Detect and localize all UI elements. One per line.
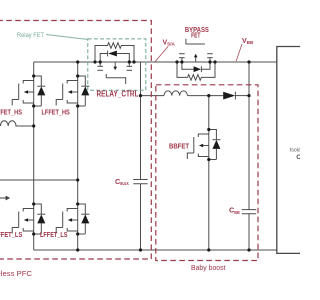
capacitor C_BB <box>242 210 256 214</box>
svg-text:VS/A: VS/A <box>163 39 176 46</box>
wire C_BB branch lower <box>248 214 250 250</box>
wire bulk cap branch lower <box>140 184 142 250</box>
svg-text:LFFET_LS: LFFET_LS <box>40 230 68 239</box>
svg-text:CBB: CBB <box>229 206 240 216</box>
svg-text:Conv: Conv <box>296 154 300 161</box>
wire BBFET source to rail <box>208 160 210 251</box>
node LS2 drain <box>76 202 79 205</box>
box bridgeless PFC (red dashed) <box>0 21 151 260</box>
leader relay FET label <box>46 35 88 40</box>
node LS1 drain <box>32 202 35 205</box>
leader V_BB <box>236 44 242 61</box>
svg-text:RELAY_CTRL: RELAY_CTRL <box>97 90 139 99</box>
transistor HFFET_LS <box>12 204 45 234</box>
node rail bulk <box>139 248 142 251</box>
wire col2 LS source <box>77 234 79 250</box>
svg-text:FET: FET <box>191 31 201 40</box>
wire col1 midpoint <box>33 106 35 204</box>
wire boost diode to VBB <box>235 95 249 97</box>
inductor L_BB <box>164 91 187 96</box>
box baby boost (red dashed) <box>156 85 258 261</box>
svg-text:HFFET_LS: HFFET_LS <box>0 230 22 239</box>
node relay inner left <box>99 60 102 63</box>
transistor HFFET_HS <box>12 76 45 106</box>
node rail CBB <box>247 248 250 251</box>
node relay outer left <box>93 60 96 63</box>
box relay FET (green dashed) <box>88 39 146 90</box>
wire top rail V_BULK <box>34 61 277 63</box>
node BBFET top <box>207 128 210 131</box>
leader V_SA <box>155 46 168 62</box>
wire bottom rail <box>34 249 277 251</box>
block isolated DC/DC converter <box>277 47 300 254</box>
svg-text:HFFET_HS: HFFET_HS <box>0 108 22 117</box>
node LS2 source <box>76 232 79 235</box>
wire C_BB branch upper <box>248 62 250 210</box>
transistor BBFET <box>187 130 220 160</box>
capacitor C_BULK <box>133 180 147 184</box>
node boost diode out <box>247 94 250 97</box>
node rail LS2 <box>76 248 79 251</box>
wire AC neutral <box>0 179 78 181</box>
diode D_BB boost <box>223 92 235 100</box>
node bypass inner left <box>180 60 183 63</box>
node baby boost tap <box>139 94 142 97</box>
wire col1 LS source to bottom rail <box>33 234 35 250</box>
wire col1 drain riser <box>33 62 35 76</box>
wire col2 midpoint <box>77 106 79 204</box>
transistor LFFET_LS <box>56 204 89 234</box>
label Isolated DC/DC converter (clipped) <box>290 148 313 162</box>
svg-text:Bridgeless PFC: Bridgeless PFC <box>0 269 33 278</box>
svg-text:CBULK: CBULK <box>115 177 129 187</box>
node inductor tap <box>32 124 35 127</box>
node VBB top <box>247 60 250 63</box>
node bypass outer left <box>175 60 178 63</box>
node BBFET drain top <box>207 94 210 97</box>
svg-text:Baby boost: Baby boost <box>191 263 226 272</box>
node relay inner right <box>128 60 131 63</box>
AC current arrow <box>0 196 10 201</box>
resistor R_bypass <box>177 62 215 80</box>
node LS1 source <box>32 232 35 235</box>
node HS2 drain <box>76 74 79 77</box>
wire baby boost input <box>141 95 165 97</box>
svg-text:LFFET_HS: LFFET_HS <box>42 108 70 117</box>
node HS1 source <box>32 104 35 107</box>
node HS1 drain <box>32 74 35 77</box>
wire BBFET drain <box>208 96 210 130</box>
node BBFET bottom <box>207 158 210 161</box>
transistor LFFET_HS <box>56 76 89 106</box>
wire baby boost switch node <box>187 95 223 97</box>
svg-text:Isolated: Isolated <box>290 148 300 154</box>
node bypass inner right <box>208 60 211 63</box>
svg-text:VBB: VBB <box>242 38 254 45</box>
node HS2 source <box>76 104 79 107</box>
svg-text:Relay FET: Relay FET <box>17 32 44 39</box>
svg-text:BBFET: BBFET <box>169 141 189 150</box>
diode D_bypass <box>182 62 210 72</box>
transistor pair BYPASS_FET (back-to-back) <box>179 39 213 62</box>
wire bulk cap branch upper <box>140 62 142 180</box>
transistor pair RELAY_FET (back-to-back) <box>97 62 132 84</box>
node bypass outer right <box>213 60 216 63</box>
node col2 top <box>76 60 79 63</box>
diode D_relay <box>100 51 129 62</box>
inductor L1 (AC line) <box>0 121 33 126</box>
node rail BBFET <box>207 248 210 251</box>
node neutral tap <box>76 178 79 181</box>
node relay outer right <box>132 60 135 63</box>
wire col2 drain riser <box>77 62 79 76</box>
resistor R_relay <box>95 43 134 62</box>
